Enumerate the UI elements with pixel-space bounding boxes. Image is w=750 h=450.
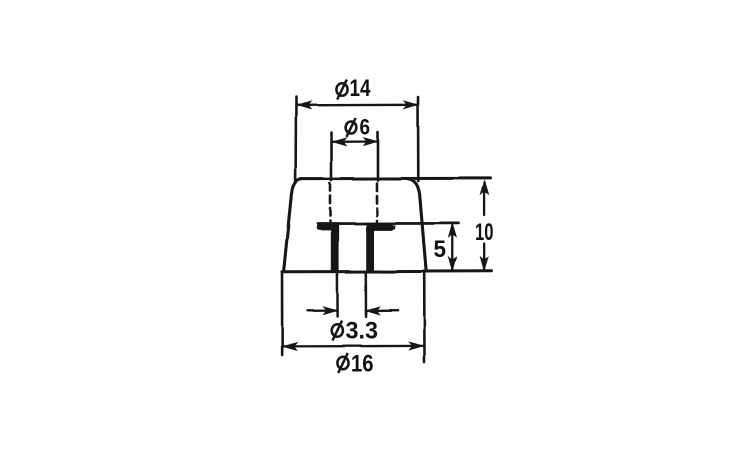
node: 5 top arrowhead: [449, 224, 456, 237]
node: sleeve right wall (solid section): [366, 229, 374, 272]
svg-text:6: 6: [360, 115, 371, 140]
node: 10 bottom arrowhead: [481, 258, 488, 271]
svg-text:14: 14: [350, 75, 372, 102]
wire: 10 dimension line lower segment: [483, 244, 485, 270]
svg-text:16: 16: [351, 350, 374, 377]
wire: phi6 right extension line: [377, 132, 380, 180]
node: washer left flange (solid section): [317, 222, 339, 230]
wire: phi6 dimension line: [333, 140, 377, 143]
label: phi symbol of phi16: [337, 353, 348, 373]
node: phi6 left arrowhead: [333, 138, 346, 145]
wire: phi3.3 left extension line: [336, 273, 339, 317]
wire: hidden hole line right (dashed): [376, 183, 379, 221]
wire: body right profile: [408, 179, 427, 272]
node: phi16 left arrowhead: [284, 343, 297, 350]
wire: phi16 dimension line: [284, 345, 423, 348]
node: phi6 right arrowhead: [364, 138, 377, 145]
wire: washer top line and 5-dim extension: [318, 222, 459, 225]
svg-text:10: 10: [475, 219, 494, 246]
node: phi16 right arrowhead: [410, 342, 423, 349]
node: 10 top arrowhead: [481, 181, 488, 194]
wire: hidden hole line left (dashed): [329, 183, 332, 221]
wire: phi16 left extension line: [281, 273, 284, 355]
label: phi symbol of phi14: [336, 80, 347, 100]
label: phi symbol of phi6: [346, 118, 357, 137]
node: washer right flange (solid section): [366, 222, 395, 230]
node: phi3.3 right arrowhead (pointing left): [366, 307, 379, 314]
wire: phi14 right extension line: [417, 97, 420, 181]
wire: 5 dimension line: [451, 225, 453, 270]
svg-text:5: 5: [434, 236, 447, 263]
wire: phi3.3 right arrow shaft: [367, 309, 398, 311]
wire: body left profile: [284, 179, 302, 272]
node: phi14 left arrowhead: [298, 102, 311, 109]
wire: body top edge line extending to 10-dim: [301, 177, 491, 180]
node: 5 bottom arrowhead: [449, 258, 456, 271]
svg-text:3.3: 3.3: [346, 317, 379, 344]
wire: phi3.3 left arrow shaft: [308, 309, 337, 311]
wire: phi3.3 right extension line: [365, 273, 368, 317]
wire: body bottom edge line extending to 10-dim: [282, 270, 492, 274]
node: sleeve left wall (solid section): [331, 229, 339, 272]
wire: phi6 left extension line: [330, 133, 333, 180]
wire: phi14 dimension line: [297, 104, 417, 107]
node: phi3.3 left arrowhead (pointing right): [324, 307, 337, 314]
node: phi14 right arrowhead: [404, 101, 417, 108]
wire: phi16 right extension line: [423, 272, 426, 362]
label: phi symbol of phi3.3: [332, 321, 343, 341]
wire: phi14 left extension line: [294, 97, 297, 180]
wire: 10 dimension line upper segment: [483, 183, 485, 215]
